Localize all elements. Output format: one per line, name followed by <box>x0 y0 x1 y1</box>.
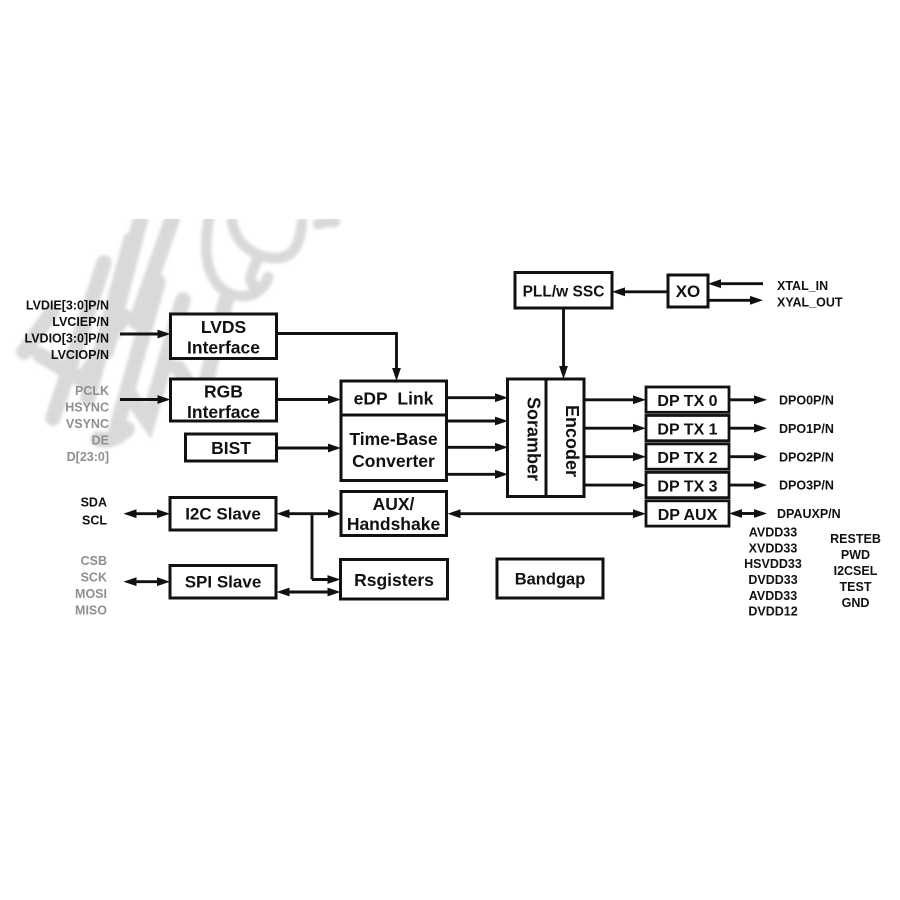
svg-text:DPO0P/N: DPO0P/N <box>779 393 834 407</box>
wire eDP Link to Soramber arrow <box>447 396 497 399</box>
wire junction drop to Rsgisters <box>311 514 314 580</box>
svg-text:DPO2P/N: DPO2P/N <box>779 450 834 464</box>
wire DP TX 2 output arrow <box>729 455 756 458</box>
svg-text:VSYNC: VSYNC <box>66 417 109 431</box>
wire Time-Base to Soramber arrow 1 <box>447 420 497 423</box>
block SPI Slave <box>170 566 276 599</box>
svg-text:DPAUXP/N: DPAUXP/N <box>777 507 841 521</box>
block DP TX 2 <box>646 444 729 469</box>
svg-text:eDP Link: eDP Link <box>354 389 434 409</box>
svg-text:MOSI: MOSI <box>75 587 107 601</box>
svg-text:LVCIEP/N: LVCIEP/N <box>52 315 109 329</box>
svg-text:DPO1P/N: DPO1P/N <box>779 422 834 436</box>
wire SPI Slave to Rsgisters double arrow <box>288 591 329 594</box>
svg-text:RESTEB: RESTEB <box>830 532 881 546</box>
svg-text:XTAL_IN: XTAL_IN <box>777 279 828 293</box>
svg-text:DVDD33: DVDD33 <box>748 573 797 587</box>
svg-text:DP TX 0: DP TX 0 <box>657 393 717 410</box>
svg-text:LVCIOP/N: LVCIOP/N <box>51 348 109 362</box>
block Rsgisters <box>341 560 448 600</box>
svg-text:BIST: BIST <box>211 438 251 458</box>
svg-text:Encoder: Encoder <box>562 405 582 477</box>
svg-text:HSYNC: HSYNC <box>65 401 109 415</box>
svg-text:XVDD33: XVDD33 <box>749 541 798 555</box>
svg-text:Time-Base: Time-Base <box>349 429 437 449</box>
block I2C Slave <box>170 498 276 531</box>
block DP TX 0 <box>646 387 729 412</box>
svg-text:PLL/w SSC: PLL/w SSC <box>523 284 605 301</box>
wire Encoder to DP TX 2 arrow <box>584 455 635 458</box>
wire Encoder to DP TX 3 arrow <box>584 484 635 487</box>
svg-text:DP AUX: DP AUX <box>658 507 718 524</box>
watermark NEWCO script <box>0 0 1 1</box>
svg-text:Interface: Interface <box>187 338 260 358</box>
wire Time-Base to Soramber arrow 3 <box>447 473 497 476</box>
svg-text:SCL: SCL <box>82 514 107 528</box>
wire AUX/Handshake to DP AUX long double arrow <box>459 512 635 515</box>
svg-text:Interface: Interface <box>187 402 260 422</box>
block RGB Interface <box>171 379 277 421</box>
svg-text:XYAL_OUT: XYAL_OUT <box>777 296 843 310</box>
wire LVDS input arrow <box>120 333 159 336</box>
wire DP TX 1 output arrow <box>729 427 756 430</box>
svg-text:AVDD33: AVDD33 <box>749 526 797 540</box>
wire DP AUX to DPAUXP/N double arrow <box>741 512 756 515</box>
wire Time-Base to Soramber arrow 2 <box>447 446 497 449</box>
block Soramber <box>508 379 547 497</box>
svg-text:Handshake: Handshake <box>347 514 441 534</box>
svg-text:DP TX 2: DP TX 2 <box>657 450 717 467</box>
svg-text:CSB: CSB <box>81 554 107 568</box>
wire RGB Interface to eDP Link arrow <box>276 398 330 401</box>
svg-text:LVDS: LVDS <box>201 317 246 337</box>
block DP AUX <box>646 501 729 526</box>
block Time-Base Converter <box>341 415 447 481</box>
svg-text:DP TX 1: DP TX 1 <box>657 421 717 438</box>
block PLL/w SSC <box>515 273 612 309</box>
wire I2C SDA/SCL bus arrow <box>135 512 159 515</box>
block DP TX 1 <box>646 415 729 440</box>
wire XO to PLL arrow <box>624 290 669 293</box>
block AUX/Handshake <box>341 492 447 536</box>
svg-text:SCK: SCK <box>81 571 107 585</box>
svg-text:TEST: TEST <box>840 580 872 594</box>
wire I2C Slave to AUX/Handshake double arrow <box>288 512 330 515</box>
wire SPI bus arrow <box>135 580 159 583</box>
wire Encoder to DP TX 0 arrow <box>584 398 635 401</box>
svg-text:PWD: PWD <box>841 548 870 562</box>
svg-text:AVDD33: AVDD33 <box>749 589 797 603</box>
svg-text:MISO: MISO <box>75 604 107 618</box>
block BIST <box>186 434 277 461</box>
svg-text:I2C Slave: I2C Slave <box>185 505 261 524</box>
svg-text:DVDD12: DVDD12 <box>748 605 797 619</box>
block eDP Link <box>341 381 447 415</box>
svg-text:DE: DE <box>92 434 109 448</box>
wire PLL to Encoder <box>562 308 565 368</box>
wire DP TX 3 output arrow <box>729 484 756 487</box>
wire BIST to Time-Base Converter arrow <box>276 447 330 450</box>
svg-text:HSVDD33: HSVDD33 <box>744 557 802 571</box>
svg-text:GND: GND <box>842 596 870 610</box>
svg-text:Converter: Converter <box>352 451 435 471</box>
wire Encoder to DP TX 1 arrow <box>584 427 635 430</box>
svg-text:Soramber: Soramber <box>524 397 544 481</box>
wire XTAL_IN arrow <box>720 282 764 285</box>
svg-text:PCLK: PCLK <box>75 384 109 398</box>
block XO <box>668 275 708 307</box>
wire RGB input arrow <box>120 398 159 401</box>
block DP TX 3 <box>646 472 729 497</box>
svg-text:LVDIO[3:0]P/N: LVDIO[3:0]P/N <box>25 332 110 346</box>
svg-text:AUX/: AUX/ <box>373 494 415 514</box>
svg-text:SPI Slave: SPI Slave <box>185 573 262 592</box>
wire DP TX 0 output arrow <box>729 398 756 401</box>
svg-text:XO: XO <box>676 282 701 301</box>
block Bandgap <box>497 559 603 598</box>
svg-text:I2CSEL: I2CSEL <box>834 564 878 578</box>
wire LVDS Interface to eDP Link <box>276 332 397 335</box>
svg-text:Bandgap: Bandgap <box>515 571 586 589</box>
svg-text:DP TX 3: DP TX 3 <box>657 478 717 495</box>
svg-text:SDA: SDA <box>81 496 107 510</box>
svg-text:DPO3P/N: DPO3P/N <box>779 479 834 493</box>
svg-text:LVDIE[3:0]P/N: LVDIE[3:0]P/N <box>26 299 109 313</box>
wire XYAL_OUT arrow <box>708 299 752 302</box>
block LVDS Interface <box>171 314 277 359</box>
svg-text:D[23:0]: D[23:0] <box>67 450 109 464</box>
svg-text:Rsgisters: Rsgisters <box>354 570 434 590</box>
svg-text:RGB: RGB <box>204 382 243 402</box>
block Encoder <box>546 379 584 497</box>
